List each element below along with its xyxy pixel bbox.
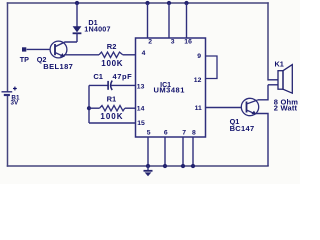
svg-text:3: 3 [171,39,175,46]
svg-text:13: 13 [137,83,145,90]
node: ground rail junction pin7 [181,164,185,168]
svg-text:100K: 100K [100,112,123,121]
resistor R1 100K [89,94,136,121]
ground [144,166,153,176]
wire: pin 6 to ground rail [164,137,166,166]
IC U1: IC1 UM3481 body [136,38,206,137]
svg-text:8: 8 [192,129,196,136]
node: top rail junction pin 16 [184,1,188,5]
svg-text:1N4007: 1N4007 [84,24,110,33]
wire: RC bus vertical [88,85,90,123]
svg-text:R1: R1 [107,94,117,103]
svg-text:16: 16 [184,39,192,46]
wire: bottom ground rail [8,165,269,167]
wire: pin 11 to Q1 base [206,107,242,109]
svg-text:7: 7 [182,129,186,136]
speaker K1 [268,59,298,112]
node: R1 junction on bus [87,106,91,110]
node: ground rail junction pin8 [191,164,195,168]
transistor Q2 BEL187 [37,41,74,71]
svg-text:UM3481: UM3481 [154,86,185,95]
svg-text:12: 12 [194,77,202,84]
wire: pin 2 to rail [147,3,149,38]
svg-text:BEL187: BEL187 [43,62,73,71]
diode D1 1N4007 [73,3,111,42]
svg-text:9: 9 [197,53,201,60]
svg-text:6: 6 [164,129,168,136]
wire: external loop pins 9-12 [206,56,218,79]
svg-text:5: 5 [147,129,151,136]
svg-text:100K: 100K [101,59,123,68]
svg-text:C1: C1 [93,72,103,81]
wire: Q2 emitter to R2 [64,54,99,56]
svg-text:R2: R2 [107,42,117,51]
wire: Q1 collector to speaker [258,85,268,100]
wire: Q2 collector to D1 [56,42,78,47]
capacitor C1 47pF [89,72,136,90]
wire: Q1 emitter to ground rail [256,114,269,167]
svg-text:15: 15 [137,120,145,127]
svg-text:TP: TP [20,55,29,64]
node: top rail junction pin 2 [145,1,149,5]
battery B1 [2,87,20,107]
svg-text:2: 2 [148,39,152,46]
node: ground rail junction pin5 [146,164,150,168]
svg-text:K1: K1 [275,59,284,68]
node: top rail junction to D1 [75,1,79,5]
svg-text:2 Watt: 2 Watt [274,103,298,112]
test point TP [20,47,51,64]
wire: V+ top rail [8,2,269,4]
wire: left rail lower (battery - to ground rail) [7,96,9,167]
wire: pin 16 to rail [186,3,188,38]
node: ground rail junction pin6 [163,164,167,168]
svg-text:47pF: 47pF [113,72,133,81]
wire: pin 3 to rail [168,3,170,38]
svg-text:4: 4 [142,50,146,57]
node: top rail junction pin 3 [167,1,171,5]
svg-text:BC147: BC147 [230,124,255,133]
wire: bus to pin 15 [89,122,136,124]
wire: pin 8 to ground rail [192,137,194,166]
svg-text:14: 14 [137,106,145,113]
resistor R2 100K [99,42,136,68]
svg-text:11: 11 [195,105,202,112]
wire: right rail (top corner down to speaker) [267,3,269,80]
wire: pin 7 to ground rail [182,137,184,166]
wire: pin 5 to ground rail [147,137,149,166]
wire: left rail upper (to battery +) [7,3,9,92]
svg-text:3V: 3V [11,99,20,106]
transistor Q1 BC147 [230,98,259,133]
